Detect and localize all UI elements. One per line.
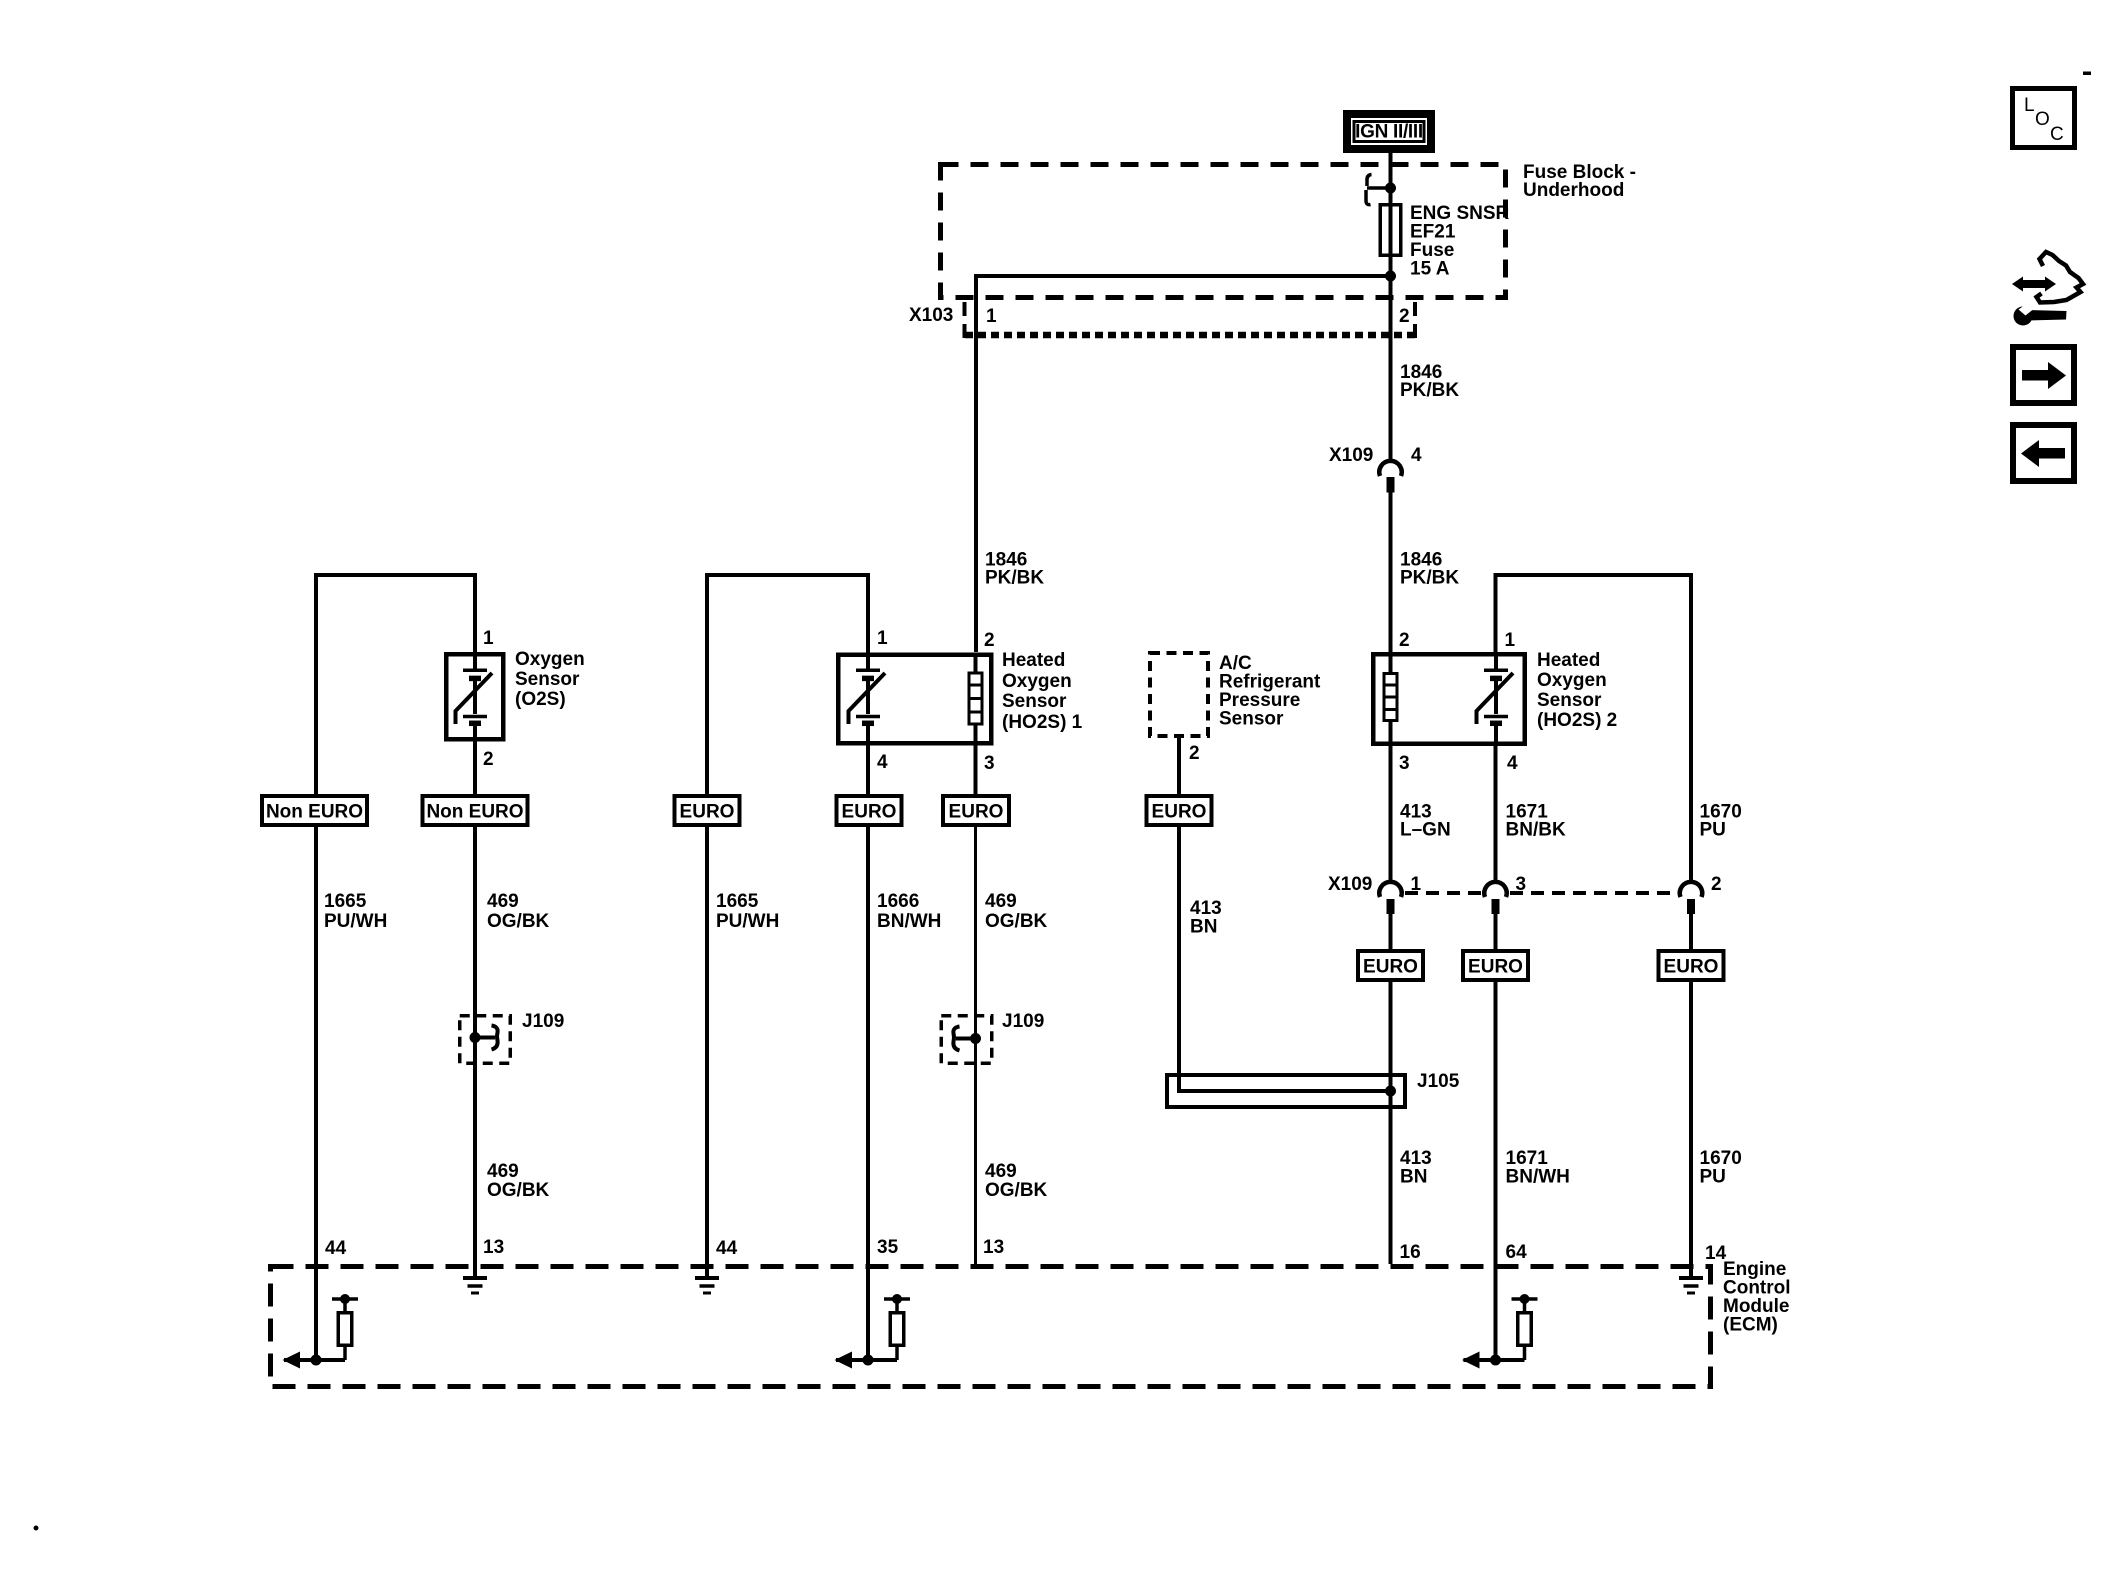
wire label 469 OG/BK (right upper) — [985, 891, 1048, 932]
wire 1666 BN/WH to ECM pin 35 — [866, 825, 870, 1360]
svg-text:Sensor: Sensor — [515, 669, 580, 690]
splice J109 (right) dashed box — [941, 1016, 992, 1064]
splice J109 (right) symbol — [953, 1027, 981, 1051]
ground symbol at ECM pin 13 (left) — [463, 1278, 487, 1293]
wire: O2S pin 1 rail to ECM pin 44 column — [316, 575, 475, 796]
wire A/C sensor pin 2 to EURO box — [1177, 738, 1181, 796]
label A/C Refrigerant Pressure Sensor — [1219, 653, 1321, 730]
O2S internal sensing element (variable battery) — [456, 652, 493, 742]
connector X109 pin 1 terminal — [1387, 899, 1395, 914]
wire label 1671 BN/BK — [1506, 802, 1566, 841]
svg-text:EURO: EURO — [1468, 957, 1523, 978]
svg-text:J109: J109 — [522, 1011, 564, 1032]
svg-text:Non EURO: Non EURO — [426, 802, 523, 823]
ground symbol at ECM pin 14 — [1679, 1278, 1703, 1293]
svg-text:Non EURO: Non EURO — [266, 802, 363, 823]
wire 413 BN from A/C EURO to J105 — [1179, 825, 1391, 1091]
wire HO2S2 pin 4 to X109 pin 3 — [1494, 744, 1498, 881]
connector X109 pin 2 terminal — [1687, 899, 1695, 914]
svg-text:PU: PU — [1700, 820, 1726, 841]
svg-text:2: 2 — [1711, 874, 1722, 895]
label ENG SNSR EF21 Fuse 15 A — [1410, 203, 1510, 280]
wire label 1666 BN/WH — [877, 891, 941, 932]
wire X109 pin 1 to EURO — [1389, 914, 1393, 951]
svg-text:BN/WH: BN/WH — [1506, 1167, 1570, 1188]
wire: HO2S2 pin 1 rail to 1670 PU column — [1496, 575, 1692, 881]
svg-text:4: 4 — [1507, 753, 1518, 774]
svg-text:44: 44 — [716, 1238, 738, 1259]
wire 469 OG/BK to ECM pin 13 (right) — [974, 825, 977, 1264]
option tag EURO (col 413 X109) — [1358, 951, 1423, 980]
wire label 1846 PK/BK right — [1400, 550, 1459, 589]
svg-text:1666: 1666 — [877, 891, 919, 912]
wire label 1665 PU/WH (left) — [324, 891, 387, 932]
svg-text:15 A: 15 A — [1410, 259, 1450, 280]
splice J109 (left) symbol — [470, 1026, 498, 1050]
HO2S2 heater element — [1384, 654, 1398, 744]
wire label 469 OG/BK (right lower) — [985, 1161, 1048, 1201]
svg-text:J109: J109 — [1002, 1011, 1044, 1032]
svg-text:2: 2 — [1399, 306, 1410, 327]
HO2S1 sensing element (variable battery) — [849, 654, 886, 743]
option tag EURO (col 1670) — [1659, 951, 1724, 980]
svg-text:BN: BN — [1400, 1167, 1427, 1188]
svg-text:64: 64 — [1506, 1242, 1528, 1263]
svg-text:35: 35 — [877, 1237, 899, 1258]
svg-text:X109: X109 — [1328, 874, 1372, 895]
wire HO2S1 pin 3 to EURO box — [974, 743, 978, 796]
fuse holder clip symbol — [1366, 175, 1396, 205]
svg-text:C: C — [2050, 124, 2064, 145]
svg-text:1: 1 — [877, 628, 888, 649]
svg-text:PK/BK: PK/BK — [1400, 568, 1459, 589]
svg-text:2: 2 — [1189, 743, 1200, 764]
svg-text:469: 469 — [487, 891, 519, 912]
svg-text:1665: 1665 — [324, 891, 367, 912]
label Heated Oxygen Sensor (HO2S) 2 — [1537, 650, 1617, 731]
svg-text:13: 13 — [483, 1237, 504, 1258]
wire label 1670 PU — [1700, 802, 1742, 841]
wire label 413 BN (A/C) — [1190, 898, 1222, 938]
wire label 1846 PK/BK left — [985, 550, 1044, 589]
wire label 1665 PU/WH (right) — [716, 891, 779, 932]
wire 1671 BN/WH to ECM pin 64 — [1494, 980, 1498, 1360]
svg-text:14: 14 — [1705, 1243, 1727, 1264]
svg-text:PU/WH: PU/WH — [716, 911, 779, 932]
connector X109 pin 4 socket arc — [1379, 461, 1401, 476]
svg-text:L–GN: L–GN — [1400, 820, 1451, 841]
wire label 469 OG/BK (left lower) — [487, 1161, 550, 1201]
legend icon: forward arrow box — [2013, 347, 2074, 403]
wire label 469 OG/BK (left upper) — [487, 891, 550, 932]
legend icon LOC box — [2013, 89, 2075, 148]
heated oxygen sensor HO2S2 box — [1373, 654, 1525, 744]
svg-text:BN/BK: BN/BK — [1506, 820, 1566, 841]
svg-text:469: 469 — [985, 1161, 1017, 1182]
option tag Non EURO (col 1665 left) — [262, 796, 367, 825]
svg-text:PU: PU — [1700, 1167, 1726, 1188]
svg-text:1: 1 — [986, 306, 997, 327]
connector X103 pin 1 tick — [963, 302, 967, 338]
svg-text:Sensor: Sensor — [1002, 691, 1067, 712]
wire: HO2S1 pin 1 rail from EURO column — [707, 575, 868, 796]
legend icon: harness repair (double arrow, outline, wrench) — [2012, 252, 2083, 326]
svg-text:1: 1 — [1505, 630, 1516, 651]
option tag EURO (col 413 A/C) — [1147, 796, 1212, 825]
svg-text:PU/WH: PU/WH — [324, 911, 387, 932]
label Oxygen Sensor (O2S) — [515, 649, 585, 710]
label Fuse Block - Underhood — [1523, 162, 1636, 201]
svg-text:PK/BK: PK/BK — [985, 568, 1044, 589]
junction dot below fuse — [1385, 271, 1396, 282]
svg-text:EURO: EURO — [680, 802, 735, 823]
connector X109 pin 1 socket arc — [1379, 882, 1401, 897]
engine control module ECM dashed box — [271, 1267, 1711, 1387]
wire label 413 L-GN — [1400, 802, 1451, 841]
connector X103 pin 2 tick — [1413, 302, 1417, 338]
svg-text:EURO: EURO — [949, 802, 1004, 823]
fuse ENG SNSR EF21 15A — [1380, 205, 1401, 256]
svg-text:L: L — [2024, 95, 2035, 116]
option tag EURO (col 469 right) — [943, 796, 1009, 825]
wire label 1671 BN/WH (lower) — [1506, 1148, 1570, 1188]
svg-text:EURO: EURO — [842, 802, 897, 823]
svg-text:BN: BN — [1190, 917, 1217, 938]
connector X109 pin 2 socket arc — [1680, 882, 1702, 897]
svg-text:OG/BK: OG/BK — [985, 911, 1048, 932]
option tag EURO (col 1671) — [1463, 951, 1528, 980]
svg-text:X103: X103 — [909, 305, 953, 326]
svg-text:OG/BK: OG/BK — [487, 1180, 550, 1201]
wire 1665 PU/WH to ECM pin 44 — [314, 825, 318, 1360]
wire label 413 BN (lower) — [1400, 1148, 1432, 1188]
svg-text:3: 3 — [984, 753, 995, 774]
svg-text:44: 44 — [325, 1238, 347, 1259]
wire label 1670 PU (lower) — [1700, 1148, 1742, 1188]
oxygen sensor O2S box — [446, 654, 503, 739]
svg-text:Heated: Heated — [1537, 650, 1600, 671]
svg-text:469: 469 — [487, 1161, 519, 1182]
svg-text:O: O — [2035, 109, 2050, 130]
connector X109 pin 4 terminal — [1387, 477, 1395, 493]
svg-text:4: 4 — [1411, 445, 1422, 466]
svg-text:PK/BK: PK/BK — [1400, 380, 1459, 401]
option tag EURO (col 1665 right) — [675, 796, 740, 825]
svg-text:Oxygen: Oxygen — [1002, 671, 1072, 692]
svg-text:(O2S): (O2S) — [515, 689, 566, 710]
svg-text:(HO2S) 2: (HO2S) 2 — [1537, 710, 1617, 731]
svg-text:2: 2 — [984, 630, 995, 651]
wire HO2S1 pin 4 to EURO box — [866, 743, 870, 796]
HO2S2 sensing element (variable battery) — [1477, 654, 1514, 744]
svg-text:(HO2S) 1: (HO2S) 1 — [1002, 712, 1083, 733]
svg-text:(ECM): (ECM) — [1723, 1315, 1778, 1336]
svg-text:OG/BK: OG/BK — [985, 1180, 1048, 1201]
splice J109 (left) dashed box — [460, 1016, 511, 1064]
wire HO2S2 pin 3 to X109 pin 1 — [1389, 744, 1393, 881]
wire X109 pin 2 to EURO — [1689, 914, 1693, 951]
svg-text:EURO: EURO — [1152, 802, 1207, 823]
wire label 1846 PK/BK upper — [1400, 362, 1459, 401]
page corner mark bottom left — [34, 1526, 39, 1531]
svg-text:16: 16 — [1400, 1242, 1421, 1263]
connector X109 dashed link 3-2 — [1510, 891, 1678, 895]
splice pack J105 box — [1167, 1075, 1405, 1107]
svg-text:Oxygen: Oxygen — [515, 649, 585, 670]
wire 1670 PU to ECM pin 14 — [1689, 980, 1693, 1278]
svg-text:4: 4 — [877, 752, 888, 773]
HO2S1 heater element — [969, 654, 983, 743]
junction dot J105 — [1385, 1086, 1396, 1097]
connector X103 body dotted line — [965, 332, 1415, 339]
svg-text:469: 469 — [985, 891, 1017, 912]
ground symbol at ECM pin 44 (right) — [695, 1278, 719, 1293]
wire: ignition feed from IGN II/III to X109 pin 4 — [1389, 151, 1393, 459]
legend icon: back arrow box — [2013, 425, 2074, 481]
connector X109 dashed link 1-3 — [1405, 891, 1482, 895]
wire from X109 pin 4 down to HO2S2 pin 2 — [1389, 493, 1393, 653]
svg-text:EURO: EURO — [1664, 957, 1719, 978]
A/C refrigerant pressure sensor dashed box — [1150, 653, 1208, 736]
heated oxygen sensor HO2S1 box — [838, 655, 991, 744]
ECM input circuit at pin 35: pull-up resistor and signal arrow — [835, 1294, 911, 1369]
svg-text:2: 2 — [483, 749, 494, 770]
connector X109 pin 3 terminal — [1492, 899, 1500, 914]
svg-text:13: 13 — [983, 1237, 1004, 1258]
option tag Non EURO (col 469 left) — [423, 796, 528, 825]
svg-text:Oxygen: Oxygen — [1537, 670, 1607, 691]
svg-text:1: 1 — [483, 628, 494, 649]
fuse block underhood dashed box — [941, 165, 1506, 298]
option tag EURO (col 1666) — [837, 796, 902, 825]
svg-text:IGN II/III: IGN II/III — [1355, 122, 1423, 143]
svg-text:Underhood: Underhood — [1523, 180, 1624, 201]
svg-text:3: 3 — [1399, 753, 1410, 774]
ECM input circuit at pin 44: pull-up resistor and signal arrow — [283, 1294, 359, 1369]
wire X109 pin 3 to EURO — [1494, 914, 1498, 951]
svg-text:EURO: EURO — [1363, 957, 1418, 978]
svg-text:J105: J105 — [1417, 1071, 1460, 1092]
svg-text:Heated: Heated — [1002, 650, 1065, 671]
wire 1665 PU/WH to ECM pin 44 (right) — [705, 825, 709, 1278]
label Heated Oxygen Sensor (HO2S) 1 — [1002, 650, 1083, 733]
wire 413 BN to ECM pin 16 — [1389, 980, 1393, 1264]
svg-text:X109: X109 — [1329, 445, 1373, 466]
svg-text:Sensor: Sensor — [1537, 690, 1602, 711]
svg-text:BN/WH: BN/WH — [877, 911, 941, 932]
svg-text:OG/BK: OG/BK — [487, 911, 550, 932]
ECM input circuit at pin 64: pull-up resistor and signal arrow — [1462, 1294, 1538, 1369]
wire 469 OG/BK to ECM pin 13 (left) — [473, 825, 477, 1278]
svg-text:1665: 1665 — [716, 891, 759, 912]
wire branch from fuse to X103 pin 1 and down to HO2S1 pin 2 — [976, 276, 1391, 652]
svg-text:Sensor: Sensor — [1219, 709, 1284, 730]
svg-text:2: 2 — [1399, 630, 1410, 651]
page corner mark top right — [2083, 72, 2091, 76]
wire O2S pin 2 to Non EURO box — [473, 742, 477, 797]
label Engine Control Module (ECM) — [1723, 1259, 1791, 1336]
power feed tag IGN II/III — [1347, 114, 1431, 149]
connector X109 pin 3 socket arc — [1484, 882, 1506, 897]
